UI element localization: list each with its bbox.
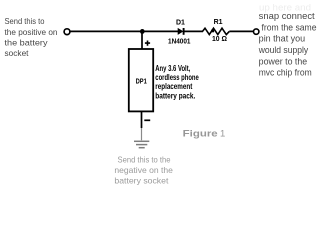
diode D1	[178, 28, 184, 35]
wire: battery pack bottom lead	[141, 112, 143, 129]
label: + (battery positive polarity)	[145, 41, 150, 46]
battery pack DP1 (box)	[129, 49, 153, 111]
svg-text:R1: R1	[214, 19, 223, 26]
svg-text:pin that you: pin that you	[259, 34, 306, 44]
wire: diode cathode to resistor	[185, 30, 204, 32]
svg-text:battery socket: battery socket	[114, 175, 169, 185]
svg-text:Send this to: Send this to	[5, 16, 45, 26]
wire: junction down to battery pack	[141, 31, 143, 49]
svg-text:Figure: Figure	[183, 129, 218, 140]
wire: lead down to ground	[141, 128, 143, 140]
note: left annotation (battery positive)	[5, 16, 58, 58]
note: battery pack description	[155, 64, 199, 101]
ground symbol	[134, 141, 149, 147]
label: Figure 1	[183, 129, 226, 140]
svg-text:the battery: the battery	[5, 37, 49, 47]
svg-text:socket: socket	[5, 48, 30, 58]
svg-text:power to the: power to the	[259, 56, 308, 66]
junction: battery tap on top rail	[140, 29, 145, 34]
svg-text:1: 1	[220, 129, 225, 140]
svg-text:1N4001: 1N4001	[168, 38, 191, 45]
svg-text:D1: D1	[176, 20, 185, 27]
label: - (battery negative polarity)	[144, 119, 150, 121]
svg-text:mvc chip from: mvc chip from	[259, 68, 312, 78]
svg-text:the positive on: the positive on	[5, 27, 58, 37]
svg-text:replacement: replacement	[155, 82, 192, 91]
svg-text:cordless phone: cordless phone	[155, 73, 199, 82]
svg-text:Any 3.6 Volt,: Any 3.6 Volt,	[155, 64, 190, 73]
svg-text:negative on the: negative on the	[114, 165, 173, 175]
svg-text:snap connect: snap connect	[259, 11, 316, 21]
wire: left terminal to diode anode	[70, 30, 178, 32]
svg-text:would supply: would supply	[258, 45, 309, 55]
svg-text:Send this to the: Send this to the	[118, 154, 171, 164]
svg-text:from the same: from the same	[262, 22, 317, 32]
node: left terminal to battery positive	[64, 29, 70, 35]
resistor R1 (zigzag)	[203, 28, 230, 34]
note: right annotation (chip supply pin)	[258, 11, 317, 78]
note: bottom annotation (battery negative)	[114, 154, 173, 185]
wire: resistor to right terminal	[229, 30, 253, 32]
svg-text:battery pack.: battery pack.	[155, 91, 195, 100]
svg-text:DP1: DP1	[136, 78, 147, 85]
svg-text:10 Ω: 10 Ω	[212, 36, 227, 43]
node: right terminal to chip power pin	[254, 29, 259, 34]
